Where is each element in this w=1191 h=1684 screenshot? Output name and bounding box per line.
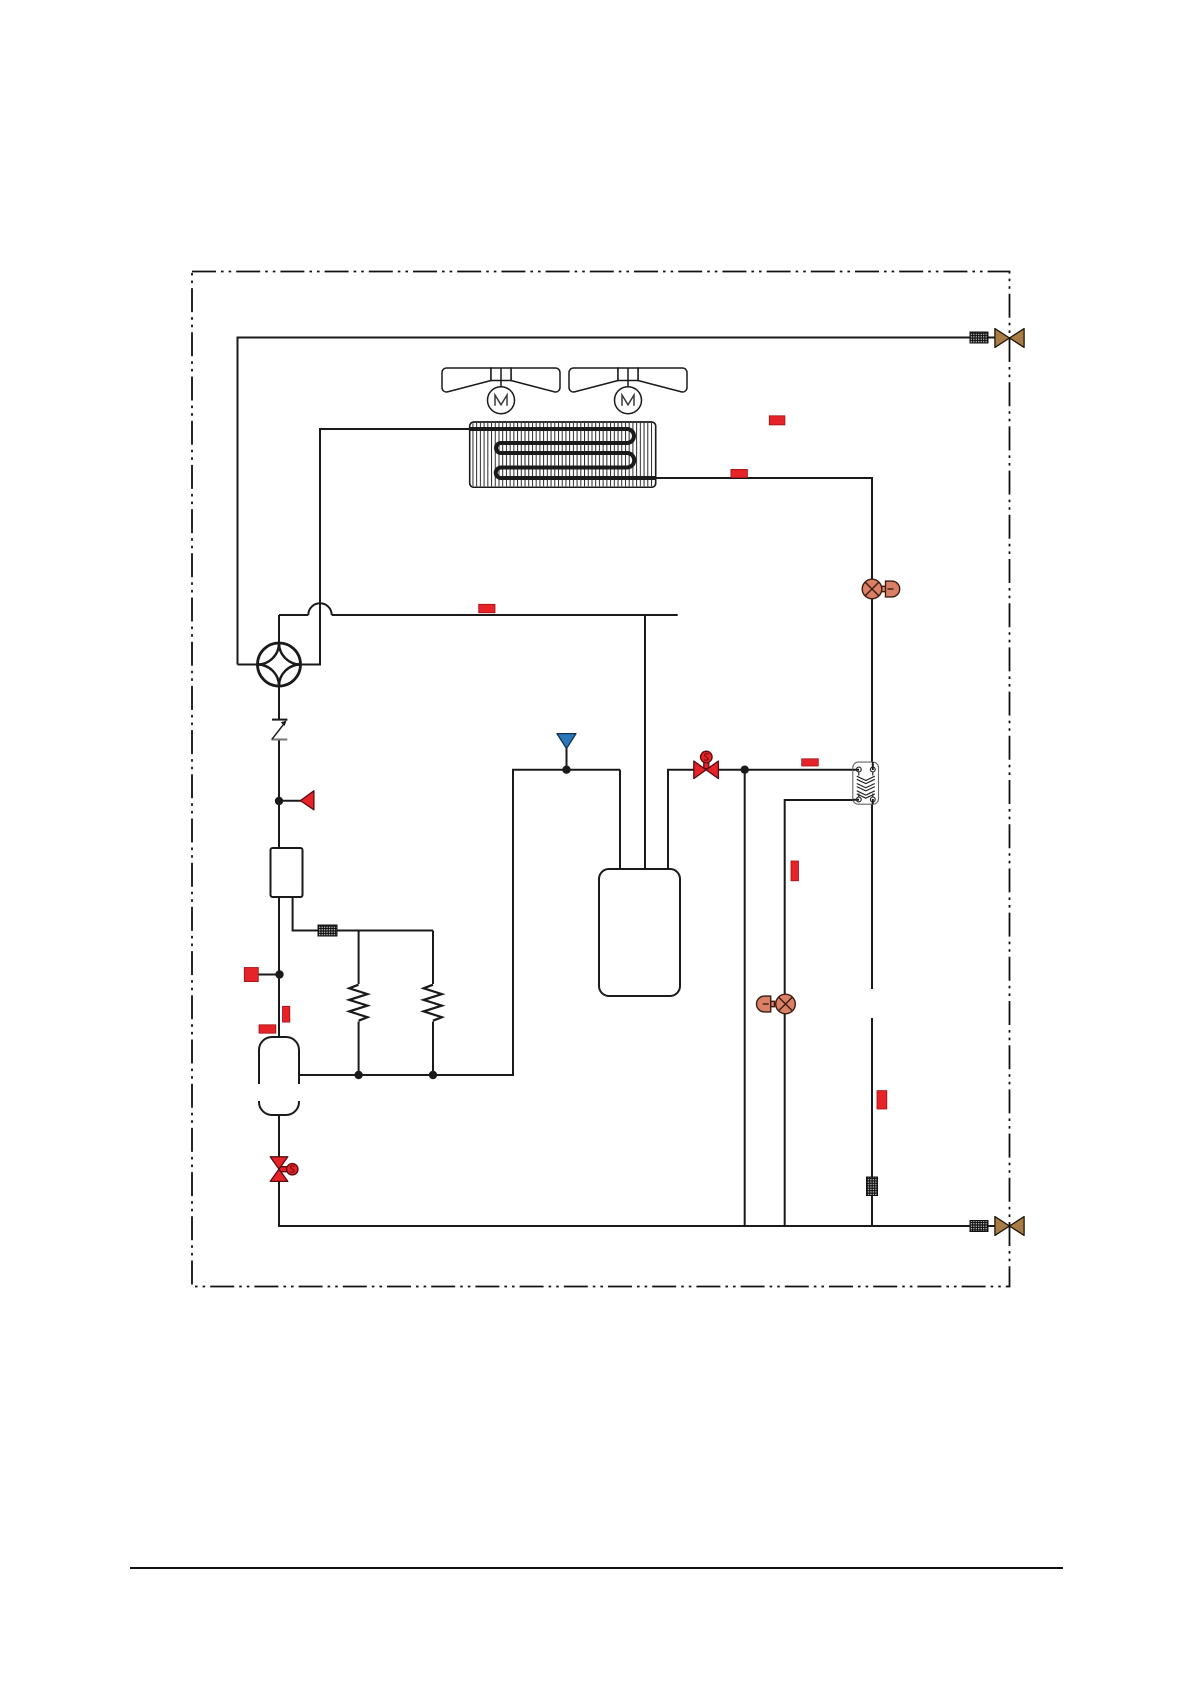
vent blue triangle [557,734,576,749]
fan 1 [442,368,560,414]
wire: 4way bottom to expansion Z [278,686,280,720]
junction node at gauge tee [275,970,283,978]
filter drier [271,848,303,897]
wire: capillary header right of strainer [337,930,433,932]
strainer on HX drop leg [867,1177,878,1196]
wire: capillary 2 lower stem [432,1022,434,1076]
junction node at discharge tee [741,766,749,774]
wire: accumulator outlet to compressor suction [299,770,620,1075]
accumulator [256,1037,303,1115]
footer rule [130,1567,1063,1569]
condenser coil assembly [470,422,656,487]
wire: HX bottom-left port leg [785,800,857,1226]
junction node at relief tee [275,797,283,805]
system boundary dash-dot border [192,272,1010,1287]
wire: capillary 1 upper stem [358,931,360,985]
service valve top right [995,329,1024,348]
expansion device Z symbol [271,720,287,740]
wire: drier second outlet to capillary header [293,897,318,931]
wire: compressor inlet left [619,770,621,869]
service valve bottom right [995,1217,1024,1236]
wire: HX bottom-right down upper [871,801,873,989]
plate heat exchanger [853,762,879,804]
wire: drop leg from junction [744,770,746,1226]
label chip horizontal above accumulator [259,1025,276,1033]
wire: suction header with hop [279,614,678,616]
wire: drier to accumulator [278,897,280,1037]
wire: discharge top pipe [238,338,971,665]
junction node at vent tee [562,766,570,774]
capillary coil 1 [349,985,367,1021]
wire: capillary 1 lower stem [358,1022,360,1076]
wire: capillary 2 upper stem [432,931,434,985]
label chip on HX drop leg [877,1091,887,1109]
4-way reversing valve [258,643,301,686]
wire: solenoid to plate HX [718,769,857,771]
strainer top right [970,332,988,343]
wire: compressor discharge right [668,770,694,869]
wire: bottom liquid line [279,1181,970,1226]
wire: HX bottom-right down lower [871,1018,873,1226]
junction node capillary 1 bottom [354,1071,362,1079]
wire: accumulator to solenoid [278,1115,280,1157]
label chip on suction header [479,604,495,613]
wire: gauge stem [258,974,279,976]
capillary coil 2 [424,985,442,1021]
compressor [599,869,680,996]
wire: 4way right port to condenser inlet [301,429,471,665]
solenoid valve discharge (horizontal) [694,751,719,778]
strainer on capillary header [318,925,337,936]
label chip left of plate HX [802,759,819,766]
wire: condenser outlet to HX top-right [656,478,872,768]
shutoff valve on condenser outlet drop [862,579,900,599]
solenoid valve liquid (vertical) [270,1157,298,1182]
wire: strainer to service valve top [988,337,995,339]
junction node capillary 2 bottom [429,1071,437,1079]
wire: 4way top port [278,615,280,643]
strainer bottom right [970,1221,988,1232]
wire: compressor inlet center [644,615,646,869]
wire: relief stem [279,800,301,802]
label chip square at liquid line gauge [244,968,258,982]
wire: bottom strainer to service valve [988,1225,995,1227]
wire: line hop arc [308,603,331,615]
condenser serpentine tube [470,429,656,478]
fan 2 [569,368,687,414]
label chip vertical above accumulator [283,1006,290,1022]
relief red triangle [300,791,314,810]
shutoff valve on HX bottom-left leg [757,994,796,1014]
label chip on condenser outlet line [731,469,748,477]
wire: Z to drier [278,739,280,848]
label chip near condenser outlet upper [769,416,785,425]
label chip on HX bottom-left leg [791,861,799,881]
wire: vent stem [566,748,568,770]
wire: 4way left port [238,664,259,666]
